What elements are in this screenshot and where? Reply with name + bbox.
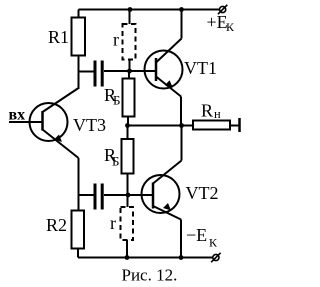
svg-text:Б: Б [113,93,120,108]
svg-text:VT1: VT1 [184,58,217,78]
svg-text:Рис. 12.: Рис. 12. [122,266,178,285]
svg-text:r: r [110,213,116,233]
svg-text:r: r [113,30,119,50]
svg-text:R1: R1 [48,27,69,47]
svg-text:н: н [214,107,221,121]
svg-text:+E: +E [207,12,228,32]
svg-text:К: К [209,236,218,250]
svg-text:VT2: VT2 [186,183,219,203]
svg-text:VT3: VT3 [73,115,106,135]
svg-text:К: К [226,20,235,34]
svg-text:Б: Б [112,154,119,169]
svg-text:вх: вх [9,107,26,124]
svg-text:−E: −E [186,225,207,245]
svg-text:R: R [201,101,213,121]
svg-text:R2: R2 [46,215,67,235]
